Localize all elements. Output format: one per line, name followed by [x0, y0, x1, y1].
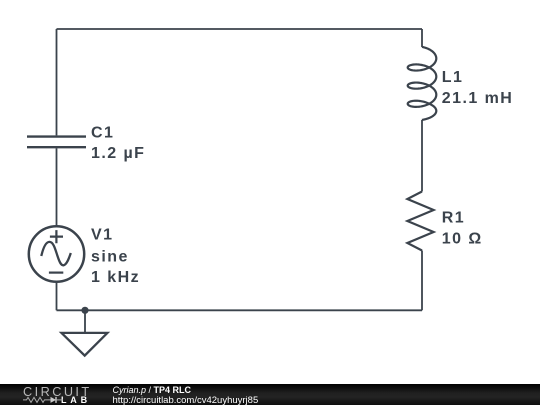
capacitor C1: [27, 137, 86, 148]
wire right top (rail to L1): [421, 29, 423, 47]
svg-text:1 kHz: 1 kHz: [91, 269, 140, 286]
CircuitLab logo LAB: [61, 395, 91, 405]
V1 minus sign: [49, 272, 63, 274]
wire top rail: [57, 28, 423, 30]
svg-text:1.2 µF: 1.2 µF: [91, 145, 145, 162]
footer bar: [0, 384, 540, 405]
resistor R1: [407, 192, 433, 251]
wire left top (to C1): [56, 29, 58, 135]
logo resistor-diode squiggle: [23, 395, 63, 405]
ground wire stub: [84, 310, 86, 333]
svg-text:L1: L1: [442, 69, 464, 86]
footer url line: [113, 395, 259, 406]
ground symbol triangle: [62, 333, 108, 356]
wire right bottom (R1 to rail): [421, 251, 423, 311]
wire left bottom (V1 to rail): [56, 282, 58, 311]
svg-text:sine: sine: [91, 249, 129, 266]
wire bottom rail: [57, 309, 423, 311]
V1 sine wave: [41, 242, 71, 265]
svg-text:21.1 mH: 21.1 mH: [442, 90, 514, 107]
wire right mid (L1 to R1): [421, 120, 423, 192]
svg-text:10 Ω: 10 Ω: [442, 230, 483, 247]
junction dot (ground node): [81, 307, 88, 314]
svg-text:V1: V1: [91, 226, 113, 243]
CircuitLab logo wordmark CIRCUIT: [23, 385, 92, 399]
inductor L1: [408, 47, 437, 120]
V1 plus sign: [50, 230, 63, 243]
svg-text:C1: C1: [91, 124, 114, 141]
wire left mid (C1 to V1): [56, 148, 58, 226]
footer attribution line: [113, 385, 192, 395]
svg-text:R1: R1: [442, 210, 465, 227]
voltage source V1: [29, 226, 84, 281]
